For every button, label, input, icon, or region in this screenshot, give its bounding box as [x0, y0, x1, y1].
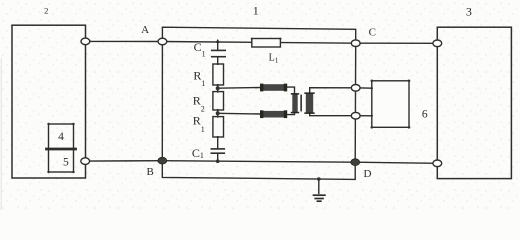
junction dots L1 box ends: [251, 38, 282, 40]
svg-text:3: 3: [466, 4, 472, 18]
junction dot R2/R1: [216, 111, 220, 115]
junction dots box 6 corners and pins: [371, 80, 411, 129]
junction dot R1/R2: [216, 86, 220, 90]
svg-text:C: C: [369, 27, 376, 39]
box 6 outline: [372, 81, 409, 128]
terminal source upper: [81, 38, 90, 45]
wire R2 to node: [217, 110, 219, 117]
terminal load upper: [433, 40, 442, 47]
wire source upper terminal to A: [85, 40, 162, 42]
enclosure 1 top wall A-C: [162, 27, 355, 43]
wire terminal to box 6 lower: [356, 115, 372, 117]
junction dot ground tap: [317, 177, 321, 181]
wire tap upper to winding: [218, 87, 262, 90]
winding (choke) top bar: [260, 84, 287, 92]
svg-text:2: 2: [44, 5, 48, 15]
svg-text:D: D: [364, 168, 372, 180]
wire B to D (return side): [162, 161, 355, 163]
capacitor C1 top stem: [217, 42, 219, 50]
wire R1 to node: [217, 85, 219, 92]
terminal source lower: [81, 158, 90, 165]
wire top winding to primary: [286, 87, 294, 93]
node D dot: [351, 159, 360, 166]
box 2 (source) outline: [12, 25, 86, 178]
capacitor C1 bottom stem: [217, 137, 219, 149]
svg-text:B: B: [147, 166, 154, 178]
winding (choke) bottom bar: [260, 110, 287, 118]
wire A to C (line side): [162, 42, 355, 44]
svg-text:5: 5: [63, 157, 69, 169]
transformer secondary winding: [304, 92, 314, 114]
junction dot C1 bottom at B-D wire: [216, 159, 220, 163]
resistor R1 upper: [213, 64, 224, 85]
svg-text:A: A: [141, 24, 149, 36]
terminal load lower: [433, 160, 442, 167]
junction dots box 4 and box 5 corners: [47, 123, 74, 173]
ground bar 3: [317, 200, 320, 202]
transformer primary winding: [291, 93, 299, 113]
enclosure 1 bottom wall B-D: [162, 161, 355, 180]
wire bottom winding to primary: [286, 113, 294, 115]
wire tap lower to winding: [218, 112, 262, 115]
wire D to load lower terminal: [355, 162, 437, 163]
wire C to load upper terminal: [356, 42, 438, 44]
svg-text:1: 1: [253, 3, 259, 17]
box 5: [49, 149, 74, 172]
wire source lower terminal to B: [85, 160, 162, 162]
divider bar between 4 and 5: [47, 148, 76, 151]
wire terminal to box 6 upper: [356, 87, 372, 89]
enclosure 1 right wall C-D: [354, 43, 357, 162]
junction dots resistor stem joints: [217, 63, 219, 138]
svg-text:6: 6: [422, 109, 428, 121]
capacitor C1 bottom plates: [211, 148, 224, 150]
inductor L1 box: [252, 39, 281, 48]
terminal A: [158, 38, 167, 45]
wire secondary top to terminal: [310, 88, 356, 93]
resistor R1 lower: [213, 117, 224, 137]
box 3 (load) outline: [437, 27, 511, 178]
ground stem: [318, 179, 320, 193]
svg-text:4: 4: [58, 131, 64, 143]
terminal secondary lower: [351, 112, 360, 119]
terminal C: [351, 40, 360, 47]
box 4: [49, 124, 74, 149]
ground bar 2: [315, 198, 323, 200]
wire secondary bottom to terminal: [310, 113, 356, 116]
resistor R2: [213, 92, 224, 110]
node B dot: [158, 157, 167, 164]
capacitor C1 top plates: [212, 49, 226, 51]
scan edge artifact left: [1, 58, 2, 210]
junction arrow at C1 top: [216, 39, 220, 43]
transformer core: [300, 95, 302, 112]
ground bar 1: [314, 194, 325, 196]
enclosure 1 left wall A-B: [161, 42, 163, 161]
terminal secondary upper: [351, 85, 360, 92]
